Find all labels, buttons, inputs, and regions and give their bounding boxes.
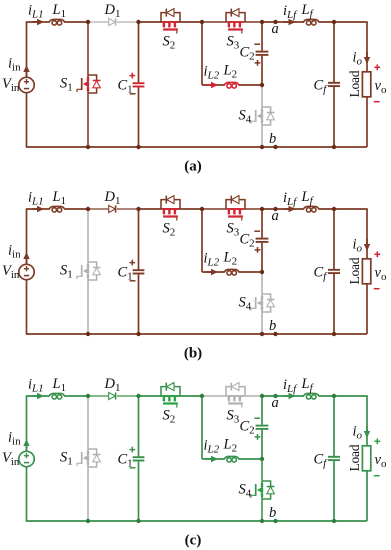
svg-text:Load: Load [347,444,362,471]
svg-text:(b): (b) [184,346,202,362]
svg-text:Load: Load [347,70,362,97]
svg-text:b: b [269,131,276,147]
svg-text:(a): (a) [184,159,202,175]
svg-text:b: b [269,318,276,334]
svg-text:b: b [269,505,276,521]
svg-text:a: a [272,208,279,224]
svg-text:(c): (c) [185,533,202,549]
svg-text:a: a [272,395,279,411]
svg-text:a: a [272,21,279,37]
svg-text:Load: Load [347,257,362,284]
